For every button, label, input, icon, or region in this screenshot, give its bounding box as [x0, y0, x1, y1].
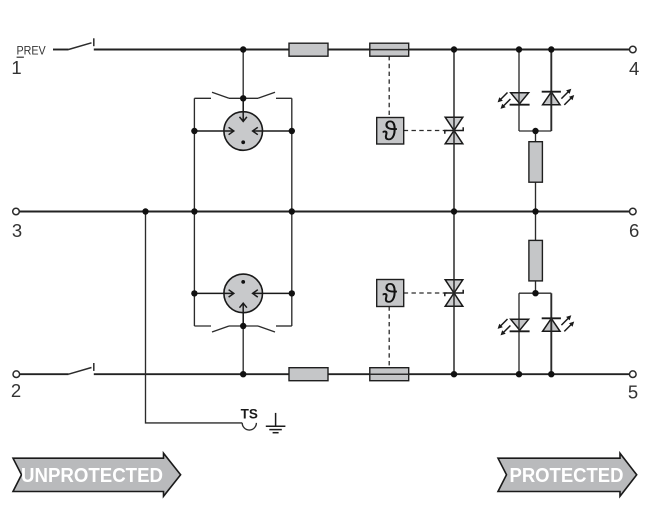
svg-text:ϑ: ϑ [382, 116, 397, 146]
svg-text:UNPROTECTED: UNPROTECTED [21, 464, 163, 487]
svg-text:6: 6 [629, 220, 639, 241]
svg-text:TS: TS [241, 407, 258, 422]
svg-text:PROTECTED: PROTECTED [510, 464, 624, 487]
svg-text:5: 5 [628, 382, 638, 403]
svg-text:ϑ: ϑ [382, 278, 397, 308]
svg-text:3: 3 [12, 220, 22, 241]
svg-text:4: 4 [629, 58, 639, 79]
svg-text:2: 2 [11, 380, 21, 401]
svg-text:1: 1 [11, 57, 21, 78]
svg-text:PREV: PREV [17, 44, 47, 58]
